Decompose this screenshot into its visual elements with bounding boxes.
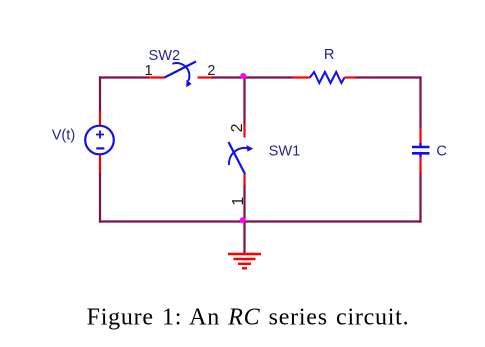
svg-text:1: 1 bbox=[230, 197, 247, 206]
svg-text:1: 1 bbox=[145, 63, 153, 79]
svg-text:2: 2 bbox=[207, 63, 215, 79]
svg-text:C: C bbox=[436, 143, 447, 159]
svg-text:R: R bbox=[324, 47, 335, 63]
svg-text:SW2: SW2 bbox=[149, 48, 181, 64]
svg-text:V(t): V(t) bbox=[52, 127, 76, 143]
svg-text:2: 2 bbox=[229, 123, 246, 132]
svg-text:Figure 1: An RC series circuit: Figure 1: An RC series circuit. bbox=[87, 305, 410, 331]
svg-text:SW1: SW1 bbox=[269, 143, 301, 159]
